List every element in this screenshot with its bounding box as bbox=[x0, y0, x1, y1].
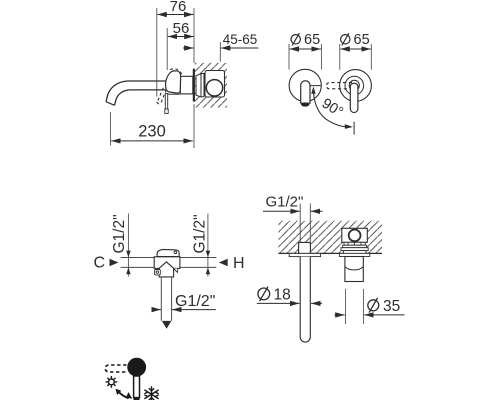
svg-text:45-65: 45-65 bbox=[223, 32, 258, 47]
cold inlet pipe (left) bbox=[121, 257, 155, 259]
G1/2 dimension (top) bbox=[263, 193, 323, 211]
cylinder dish bbox=[345, 267, 363, 270]
bottom G1/2 dimension bbox=[152, 293, 216, 310]
dashed head arc (alt position) bbox=[170, 69, 182, 75]
Ø35 dimension bbox=[335, 289, 405, 324]
right escutcheon circle bbox=[340, 70, 372, 102]
handle (vertical, solid) bbox=[350, 83, 358, 112]
hot inlet pipe (right) bbox=[180, 257, 216, 259]
spout tube front view bbox=[301, 81, 310, 103]
spout tip cut bbox=[106, 102, 115, 106]
Ø18 dimension bbox=[257, 287, 322, 304]
svg-text:G1/2": G1/2" bbox=[266, 193, 304, 210]
dimension 45-65 (wall thickness) bbox=[183, 32, 259, 62]
arc end arrow (right) bbox=[345, 124, 353, 129]
svg-text:65: 65 bbox=[354, 32, 370, 48]
flange plate bbox=[201, 74, 204, 97]
valve body behind wall (box) bbox=[205, 71, 225, 98]
extension line for 56 bbox=[166, 28, 168, 70]
svg-text:G1/2": G1/2" bbox=[192, 214, 209, 253]
svg-text:C: C bbox=[94, 254, 106, 271]
valve cylinder bbox=[345, 257, 363, 282]
handle base circle bbox=[345, 76, 364, 95]
body foot block bbox=[155, 270, 161, 275]
svg-text:H: H bbox=[233, 255, 245, 272]
svg-text:65: 65 bbox=[304, 32, 320, 48]
rotation double arrow bbox=[119, 392, 129, 398]
svg-text:56: 56 bbox=[173, 20, 190, 37]
dimension Ø65 left bbox=[290, 32, 321, 49]
handle hub circle bbox=[349, 80, 359, 90]
svg-text:G1/2": G1/2" bbox=[175, 293, 215, 310]
body main block bbox=[154, 257, 180, 269]
valve flange band 4 bbox=[343, 251, 366, 254]
supply pipe extension lines in wall bbox=[299, 204, 301, 254]
body cap screw bbox=[174, 251, 177, 254]
svg-text:35: 35 bbox=[383, 298, 400, 315]
svg-text:18: 18 bbox=[274, 287, 291, 304]
arc start arrow (up) bbox=[311, 87, 316, 94]
body top cap bbox=[157, 249, 179, 256]
dimension 56 bbox=[168, 20, 194, 37]
aerator tip bbox=[301, 103, 309, 106]
extension line for 76 (lever tip) bbox=[156, 8, 158, 97]
dashed lever (open position) bbox=[157, 88, 167, 106]
spout (side view) bbox=[106, 81, 168, 102]
90 degree rotation arc bbox=[313, 92, 350, 127]
svg-text:230: 230 bbox=[138, 123, 166, 141]
outlet flow arrow bbox=[162, 321, 172, 329]
body pentagon boss bbox=[159, 262, 173, 277]
snowflake symbol (cold) bbox=[145, 387, 158, 400]
valve escutcheon (below wall) bbox=[339, 253, 369, 256]
valve flange band 2 bbox=[343, 245, 367, 248]
right G1/2 vertical dimension bbox=[192, 214, 211, 277]
wall bottom surface line bbox=[278, 252, 382, 254]
left G1/2 vertical dimension bbox=[111, 214, 131, 277]
extension lines Ø65 left bbox=[288, 44, 290, 70]
svg-text:76: 76 bbox=[170, 0, 187, 15]
centerline tick in left circle bbox=[310, 85, 321, 87]
spout escutcheon (below wall) bbox=[289, 253, 320, 256]
extension line wall face (upper) bbox=[193, 8, 195, 63]
dashed handle (horizontal position) bbox=[326, 83, 352, 89]
lever end cap bbox=[165, 109, 168, 113]
spout tube (below wall) bbox=[300, 257, 310, 342]
outlet pipe lines bbox=[160, 277, 162, 321]
svg-text:G1/2": G1/2" bbox=[111, 214, 128, 253]
arc end tick bbox=[353, 122, 355, 135]
dimension 230 bbox=[111, 104, 195, 148]
knob stem bbox=[134, 376, 140, 398]
knob ball bbox=[127, 358, 146, 377]
knob stem base bbox=[134, 397, 140, 400]
mixer head bbox=[166, 71, 181, 93]
wall hatching (bottom view) bbox=[278, 221, 382, 254]
sun symbol (hot) bbox=[106, 377, 117, 388]
flange cup behind escutcheon bbox=[196, 74, 201, 97]
left escutcheon circle bbox=[289, 69, 321, 101]
spout elbow box in wall bbox=[299, 242, 311, 253]
lever (hanging down) bbox=[165, 94, 167, 110]
foot screw bbox=[156, 271, 158, 273]
wall hatching (side view) bbox=[195, 63, 227, 108]
extension lines Ø65 right bbox=[339, 44, 341, 70]
valve circle bbox=[349, 230, 361, 242]
dashed knob position (capsule) bbox=[105, 365, 126, 372]
dimension 76 bbox=[157, 0, 193, 15]
valve top box bbox=[342, 228, 368, 242]
dimension Ø65 right bbox=[340, 32, 371, 49]
valve flange band 3 bbox=[341, 248, 368, 251]
valve spline band bbox=[344, 242, 365, 245]
escutcheon plate (side view, solid) bbox=[193, 69, 195, 102]
neck line under head bbox=[168, 93, 180, 95]
mixer body cylinder bbox=[180, 76, 193, 94]
body corner fold bbox=[174, 269, 178, 273]
valve circle behind wall bbox=[206, 80, 222, 96]
